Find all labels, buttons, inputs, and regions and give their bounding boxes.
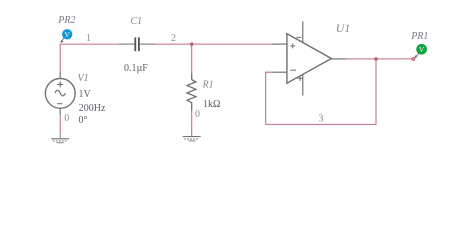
svg-text:0°: 0° [79,115,88,126]
svg-text:2: 2 [171,33,176,44]
V1 minus sign [57,103,62,105]
wire top horizontal node1 [60,43,119,45]
wire op-amp output [347,58,413,60]
svg-text:V: V [64,30,70,39]
V1 sine symbol [55,90,65,96]
U1 bottom power stub [302,74,304,96]
wire end terminal at PR1 [412,57,415,60]
svg-text:3: 3 [318,114,323,125]
svg-text:U1: U1 [336,21,350,35]
U1 top power stub [302,22,304,43]
svg-text:C1: C1 [131,16,143,27]
svg-text:R1: R1 [202,80,214,91]
svg-text:V1: V1 [78,73,89,84]
wire V1 bottom [59,115,61,135]
svg-text:V: V [419,45,425,54]
svg-text:1V: 1V [79,89,92,100]
op-amp U1 [287,34,332,84]
wire R1 branch down [191,44,193,73]
wire R1 bottom to ground [191,111,193,135]
junction node 2 [190,42,194,46]
V1 top lead [59,72,61,79]
svg-text:0: 0 [195,109,200,120]
svg-text:0.1µF: 0.1µF [124,63,148,74]
wire left vertical to V1 [59,44,61,72]
wire feedback loop node3 [266,59,376,125]
U1 plus power sign [298,76,303,81]
source V1 [45,79,75,109]
capacitor C1 [119,43,155,45]
probe PR1 [416,53,419,56]
svg-text:PR2: PR2 [57,15,75,26]
svg-text:0: 0 [64,113,69,124]
svg-text:PR1: PR1 [410,31,428,42]
resistor R1 [187,74,196,111]
ground under V1 [51,134,69,143]
V1 plus sign [57,81,63,87]
U1 minus input sign [290,69,296,71]
wire node2 segment [155,43,273,45]
U1 output stub [331,58,347,60]
U1 plus input sign [290,43,295,48]
svg-text:1kΩ: 1kΩ [203,99,220,110]
U1 input stub - [273,71,287,73]
U1 minus power sign [296,36,301,38]
probe PR2 [62,37,64,40]
ground under R1 [183,134,201,141]
wire V1 bottom to ground [59,108,61,114]
U1 input stub + [272,43,287,45]
svg-text:1: 1 [86,33,91,44]
svg-text:200Hz: 200Hz [79,103,106,114]
junction output node [374,57,378,61]
